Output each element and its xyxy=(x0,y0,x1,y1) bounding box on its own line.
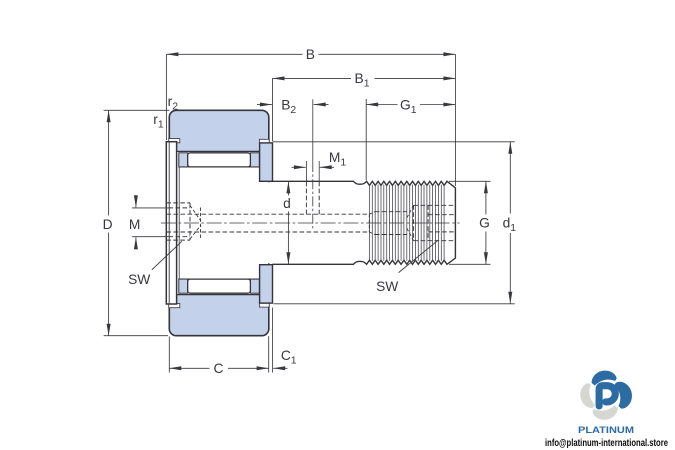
dimension d xyxy=(287,181,289,195)
ring face relief notch top-right xyxy=(259,139,269,143)
svg-text:info@platinum-international.st: info@platinum-international.store xyxy=(545,438,668,449)
axial lubrication duct narrow (dashed) xyxy=(167,213,370,215)
outer ring left face line seen at washer xyxy=(168,143,170,304)
svg-text:B2: B2 xyxy=(281,97,296,116)
stud raceway surface bottom xyxy=(179,278,259,280)
logo petal bottom (gray) xyxy=(593,403,618,419)
grease hole axis (dash-dot) xyxy=(312,99,314,162)
SW label right with leader xyxy=(399,240,439,273)
duct neck and expansion cone (dashed) xyxy=(368,214,370,232)
ring face relief notch bottom-left xyxy=(169,304,180,308)
outer ring bore xyxy=(170,151,268,294)
logo P monogram xyxy=(599,386,615,406)
dimension B2 xyxy=(257,104,272,106)
logo petal right (blue) xyxy=(613,382,632,409)
stud collar flange bottom section xyxy=(260,265,273,303)
dimension D xyxy=(104,109,170,111)
stud raceway surface top xyxy=(179,166,259,168)
dimension G1 xyxy=(365,99,367,180)
stud left end face line xyxy=(178,167,180,279)
dimension M (socket thread) xyxy=(132,207,169,209)
svg-text:PLATINUM: PLATINUM xyxy=(578,425,634,435)
svg-text:M: M xyxy=(129,217,141,232)
svg-text:D: D xyxy=(103,217,113,232)
svg-text:G1: G1 xyxy=(400,97,417,116)
hex socket left end (dashed) xyxy=(166,202,190,204)
hex socket right end (dashed) xyxy=(413,205,415,240)
dimension G xyxy=(449,180,491,182)
needle roller top xyxy=(188,153,251,167)
grease hole from top (dashed) xyxy=(305,182,307,217)
needle roller bottom xyxy=(188,279,251,293)
logo petal top (blue) xyxy=(592,371,617,388)
svg-text:r2: r2 xyxy=(168,94,179,113)
logo petal left (gray) xyxy=(580,383,596,408)
right socket drill cone (dashed) xyxy=(406,205,413,219)
svg-text:C1: C1 xyxy=(281,348,297,367)
SW label left with leader xyxy=(152,241,182,269)
svg-text:SW: SW xyxy=(376,279,398,294)
svg-text:d: d xyxy=(283,196,291,211)
left socket drill cone (dashed) xyxy=(190,206,201,222)
dimension M1 xyxy=(305,161,307,181)
ring face relief notch bottom-right xyxy=(259,303,269,307)
svg-text:C: C xyxy=(214,361,224,376)
ring face relief notch top-left xyxy=(169,139,180,143)
stud shank and threaded end outline xyxy=(273,181,456,264)
dimension B xyxy=(165,54,167,140)
svg-text:B: B xyxy=(306,47,315,62)
axial lubrication duct wide (dashed) xyxy=(375,211,407,213)
svg-text:r1: r1 xyxy=(153,112,164,131)
mask ring face edge behind stud shank xyxy=(268,182,273,263)
needle cage end pieces xyxy=(179,153,188,167)
dimension B1 xyxy=(272,78,274,141)
svg-text:d1: d1 xyxy=(503,215,517,234)
side washer (flange) at stud head xyxy=(166,142,176,304)
outer ring (blue) xyxy=(169,110,268,335)
dimension C xyxy=(168,337,170,373)
stud collar flange top section xyxy=(260,143,273,181)
main centre axis (dash-dot) xyxy=(161,222,460,224)
svg-text:B1: B1 xyxy=(355,71,370,90)
thread hatching lines xyxy=(369,185,371,261)
dimension d1 xyxy=(273,141,515,143)
svg-text:G: G xyxy=(479,215,490,230)
svg-text:SW: SW xyxy=(128,272,150,287)
logo petal seams xyxy=(613,371,624,385)
dimension C1 xyxy=(272,308,274,373)
